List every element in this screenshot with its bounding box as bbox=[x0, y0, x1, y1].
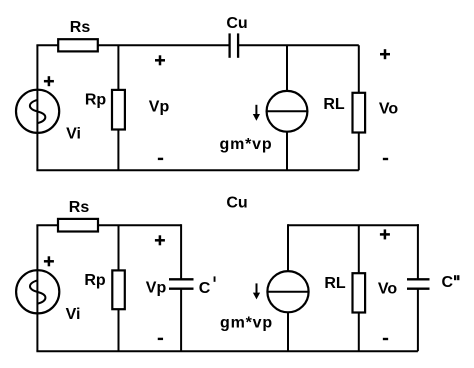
resistor Rs (top) bbox=[58, 39, 98, 51]
label + of Vi (bottom) bbox=[44, 256, 54, 266]
current direction arrow (top) bbox=[253, 105, 260, 121]
resistor Rs (bottom) bbox=[58, 219, 98, 232]
wire: C' branch lower lead (bottom circuit) bbox=[180, 289, 182, 352]
capacitor C'' (bottom) bbox=[407, 279, 430, 288]
label + of Vp (bottom) bbox=[155, 235, 165, 245]
dependent current source gm*vp (top) bbox=[267, 91, 308, 132]
wire: current source branch upper lead (top circuit) bbox=[286, 45, 288, 91]
svg-text:Vp: Vp bbox=[149, 99, 170, 116]
svg-text:C: C bbox=[442, 274, 454, 291]
wire: top rail left of Cu (top circuit) bbox=[36, 44, 229, 46]
wire: RL branch vertical (top circuit) bbox=[358, 45, 360, 170]
svg-text:Vi: Vi bbox=[66, 126, 81, 143]
wire: bottom-left branch vertical (Vi branch, bottom circuit) bbox=[36, 225, 38, 351]
svg-text:Rs: Rs bbox=[70, 19, 91, 36]
dependent current source gm*vp (bottom) bbox=[267, 271, 308, 312]
wire: C'' branch lower lead (bottom circuit) bbox=[417, 289, 419, 352]
svg-text:Vo: Vo bbox=[379, 101, 398, 118]
svg-text:C: C bbox=[199, 280, 211, 297]
capacitor Cu (top) bbox=[230, 33, 239, 57]
resistor RL (top) bbox=[353, 93, 366, 133]
svg-text:Vi: Vi bbox=[66, 306, 81, 323]
wire: bottom ground rail (bottom circuit) bbox=[36, 350, 418, 352]
resistor RL (bottom) bbox=[353, 273, 366, 312]
label + of Vp (top) bbox=[155, 55, 165, 65]
wire: current source branch lower lead (bottom circuit) bbox=[287, 312, 289, 351]
wire: Rp branch vertical (top circuit) bbox=[117, 45, 119, 170]
wire: RL branch vertical (bottom circuit) bbox=[358, 225, 360, 351]
svg-text:Vp: Vp bbox=[146, 280, 167, 297]
svg-text:gm*vp: gm*vp bbox=[220, 136, 273, 153]
wire: C'' branch upper lead (bottom circuit) bbox=[417, 224, 419, 279]
wire: input loop top rail (bottom circuit) bbox=[36, 224, 181, 226]
label + of Vi (top) bbox=[44, 76, 54, 86]
current direction arrow (bottom) bbox=[253, 283, 260, 299]
label - of Vp (top) bbox=[158, 158, 163, 160]
label + of Vo (top) bbox=[380, 49, 390, 59]
label - of Vo (top) bbox=[383, 158, 388, 160]
wire: Rp branch vertical (bottom circuit) bbox=[118, 225, 120, 351]
voltage source Vi (top) bbox=[16, 90, 59, 133]
wire: top rail right of Cu (top circuit) bbox=[238, 44, 359, 46]
wire: output loop top rail (bottom circuit) bbox=[288, 224, 419, 226]
svg-text:gm*vp: gm*vp bbox=[220, 315, 273, 332]
resistor Rp (top) bbox=[112, 90, 125, 130]
svg-text:Vo: Vo bbox=[378, 281, 397, 298]
voltage source Vi (bottom) bbox=[16, 270, 59, 313]
svg-text:Rs: Rs bbox=[69, 199, 90, 216]
label - of Vo (bottom) bbox=[383, 338, 388, 340]
wire: C' branch upper lead (bottom circuit) bbox=[180, 224, 182, 279]
svg-text:Rp: Rp bbox=[84, 272, 106, 289]
label - of Vp (bottom) bbox=[158, 338, 163, 340]
wire: current source branch lower lead (top circuit) bbox=[286, 132, 288, 171]
svg-text:RL: RL bbox=[323, 96, 345, 113]
svg-text:Rp: Rp bbox=[85, 91, 107, 108]
wire: current source branch upper lead (bottom circuit) bbox=[287, 224, 289, 271]
resistor Rp (bottom) bbox=[112, 270, 125, 309]
label + of Vo (bottom) bbox=[380, 229, 390, 239]
wire: top-left branch vertical (Vi branch, top circuit) bbox=[36, 45, 38, 170]
svg-text:Cu: Cu bbox=[226, 15, 247, 32]
wire: bottom rail (top circuit) bbox=[36, 169, 358, 171]
svg-text:Cu: Cu bbox=[226, 194, 247, 211]
capacitor C' (bottom) bbox=[169, 279, 194, 288]
svg-text:RL: RL bbox=[324, 275, 346, 292]
